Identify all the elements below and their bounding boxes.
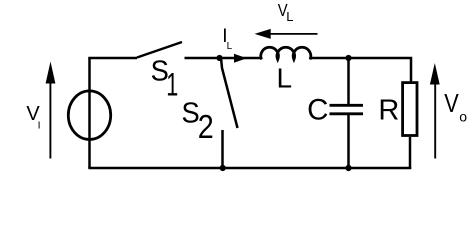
svg-text:o: o <box>459 109 467 125</box>
switch S1 blade <box>137 42 182 58</box>
inductor L <box>261 47 311 59</box>
wire capacitor branch top <box>347 58 350 105</box>
resistor R box <box>403 83 417 136</box>
V_o arrow <box>430 63 440 159</box>
svg-text:1: 1 <box>166 67 178 103</box>
svg-text:I: I <box>38 119 41 131</box>
voltage source V_I circle <box>68 91 110 140</box>
V_L arrow <box>255 29 318 39</box>
switch S2 bottom contact wire <box>221 130 224 168</box>
wire capacitor branch bottom <box>347 115 350 168</box>
svg-text:L: L <box>277 63 293 94</box>
svg-text:L: L <box>227 41 233 52</box>
svg-text:C: C <box>307 93 328 126</box>
svg-text:V: V <box>444 90 459 118</box>
V_I arrow <box>46 62 56 159</box>
wire bottom rail <box>88 167 411 170</box>
wire top rail left segment <box>88 57 137 60</box>
capacitor C bottom plate <box>330 112 364 115</box>
svg-text:R: R <box>378 94 399 126</box>
switch S2 blade <box>221 58 238 128</box>
svg-text:L: L <box>286 9 293 24</box>
wire top rail right segment with corner to resistor <box>310 58 411 82</box>
wire resistor bottom to rail <box>409 137 412 169</box>
wire left branch vertical <box>88 58 91 168</box>
wire top rail middle segment <box>185 57 263 60</box>
junction dot top S2 node <box>216 55 222 61</box>
junction dot top C node <box>345 55 351 61</box>
I_L current arrow <box>234 54 247 63</box>
junction dot bottom S2 node <box>220 165 226 171</box>
capacitor C top plate <box>330 104 364 107</box>
svg-text:2: 2 <box>198 109 214 146</box>
junction dot bottom C node <box>345 165 351 171</box>
